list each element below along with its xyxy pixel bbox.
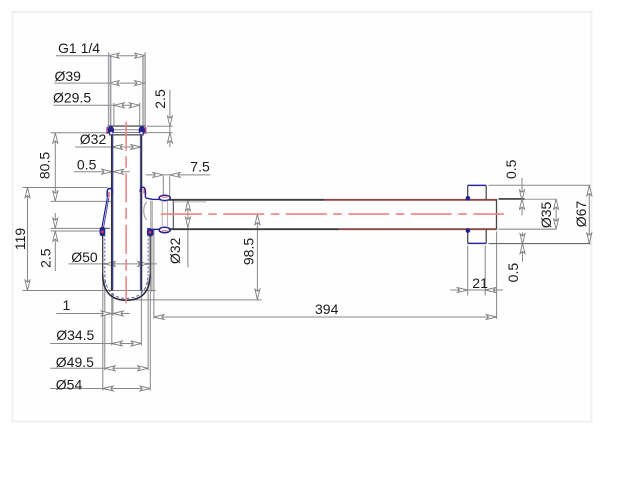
dimension 1 line: [56, 313, 130, 315]
extension line cup lip for 119: [23, 187, 108, 189]
dimension 2.5 left line: [54, 213, 56, 228]
nut body verticals: [161, 201, 163, 228]
dimension 0.5 left line: [74, 171, 130, 173]
extension vertical pipe end for 394: [496, 232, 498, 319]
pipe top edge maroon segment: [324, 199, 497, 201]
dimension 394 line: [154, 316, 497, 318]
dimension 21 line: [450, 289, 503, 291]
pipe top edge dark segment: [169, 199, 324, 201]
extension line cup bottom for 119: [23, 290, 156, 292]
pipe bottom edge dark segment: [169, 228, 339, 230]
svg-text:0.5: 0.5: [505, 263, 521, 283]
extension line cup seat for 80.5: [51, 200, 112, 202]
svg-text:80.5: 80.5: [37, 152, 53, 179]
arrows 1 crossed: [101, 311, 111, 316]
dimension O32 line: [75, 146, 141, 148]
dimension O34.5 line: [50, 343, 141, 345]
inlet tube outer walls (threaded section): [109, 52, 146, 126]
arrows 0.5 top-right crossed: [520, 190, 525, 200]
extension lines O29.5: [113, 103, 115, 126]
arrows 7.5 crossed: [153, 172, 163, 177]
extension lines cup ledge for 2.5: [51, 227, 100, 229]
arrows O50: [105, 261, 115, 266]
dimension 98.5 line: [256, 214, 258, 299]
svg-text:119: 119: [12, 228, 28, 251]
dimension O39 line: [54, 82, 145, 84]
svg-text:G1 1/4: G1 1/4: [58, 40, 100, 56]
down tube outer walls: [111, 135, 113, 291]
dimension 7.5 line: [146, 174, 210, 176]
flange magenta edges: [106, 127, 108, 134]
dimension G1 1/4 line: [56, 55, 145, 57]
svg-text:2.5: 2.5: [152, 89, 168, 109]
cup bottom outer curve: [103, 275, 151, 301]
arrows 80.5: [53, 133, 58, 143]
extension lines flange right for 2.5: [147, 125, 173, 127]
arrows 0.5 left crossed: [102, 169, 112, 174]
cup lip hook left: [107, 188, 112, 197]
arrows 394: [154, 315, 164, 320]
dimension 0.5 bottom-right line: [522, 233, 524, 262]
svg-text:7.5: 7.5: [190, 159, 210, 175]
olive ring bottom (navy ellipse): [159, 227, 170, 232]
cup lip hook right: [140, 187, 145, 197]
extension verticals below cup: [111, 293, 113, 346]
arrows O29.5: [114, 103, 124, 108]
collar O-ring bottom (navy dot): [466, 228, 471, 233]
flange seal left (navy): [108, 126, 115, 135]
cup shoulder left (double): [102, 198, 108, 228]
extension verticals nut face for 394: [151, 229, 153, 292]
arrows G1 1/4: [109, 53, 119, 58]
flange horizontal faces: [106, 126, 146, 135]
cup bottom inner curve (blue dashed): [105, 275, 148, 299]
dimension 2.5 top-right line: [169, 90, 171, 148]
arrows O35: [554, 199, 559, 209]
arrows 119: [25, 187, 30, 197]
dimension 0.5 top-right line: [521, 178, 523, 216]
olive ring top (navy ellipse): [159, 195, 170, 200]
branch stub bottom (navy): [147, 228, 168, 231]
dimension O54 line: [50, 388, 150, 390]
svg-text:Ø54: Ø54: [56, 376, 83, 392]
flange seal right (navy): [139, 126, 146, 135]
branch stub top (navy): [145, 198, 168, 200]
cup outer walls: [102, 235, 104, 277]
arrows O67: [587, 185, 592, 195]
dimension O67 line: [588, 185, 590, 243]
dimension O32 branch line: [187, 200, 189, 267]
svg-text:Ø39: Ø39: [55, 68, 82, 84]
cup inner walls (blue dotted): [104, 235, 106, 277]
svg-text:2.5: 2.5: [38, 248, 54, 268]
svg-text:21: 21: [472, 275, 488, 291]
svg-text:0.5: 0.5: [503, 159, 519, 179]
svg-text:Ø34.5: Ø34.5: [56, 327, 94, 343]
wall collar bottom half: [467, 229, 469, 243]
arrows O32: [112, 145, 122, 150]
nut curved face arc: [144, 202, 147, 220]
vertical centerline (red dash-dot): [125, 122, 127, 304]
svg-text:Ø49.5: Ø49.5: [56, 354, 94, 370]
dimension O29.5 line: [53, 104, 139, 106]
collar O-ring top (navy dot): [466, 196, 471, 201]
extension verticals collar for 21: [467, 246, 469, 296]
horizontal centerline (red dash-dot): [161, 213, 504, 215]
extension line pipe top for O35: [499, 198, 525, 200]
extension line collar top for O67: [489, 184, 591, 186]
arrows O39: [109, 81, 119, 86]
extension line pipe bottom for O35: [499, 228, 557, 230]
svg-text:0.5: 0.5: [77, 156, 97, 172]
extension line collar bottom for O67: [489, 243, 591, 245]
svg-text:Ø32: Ø32: [80, 131, 107, 147]
arrows 98.5: [255, 214, 260, 224]
wall collar top half: [467, 185, 469, 199]
dimension O35 line: [555, 199, 557, 229]
dimension 119 line: [27, 187, 29, 290]
cup nut knob right (navy): [147, 229, 154, 237]
pipe inner wall short line: [173, 201, 206, 203]
extension line flange left for 80.5: [51, 132, 107, 134]
svg-text:Ø35: Ø35: [538, 201, 554, 228]
svg-text:98.5: 98.5: [241, 238, 257, 265]
svg-text:Ø67: Ø67: [573, 201, 589, 228]
arrows 2.5 left crossed: [53, 218, 58, 228]
dimension 80.5 line: [54, 133, 56, 202]
extension line cup bottom for 98.5: [127, 299, 262, 301]
svg-text:Ø32: Ø32: [167, 237, 183, 264]
pipe right end face: [496, 199, 498, 230]
arrows O54: [103, 386, 113, 391]
arrows 0.5 bottom-right crossed: [520, 234, 525, 244]
arrows 21 crossed: [457, 288, 467, 293]
pipe left end face: [172, 200, 174, 229]
extension lines nut for 7.5: [162, 176, 164, 196]
pipe bottom edge maroon segment: [339, 228, 497, 230]
dimension O49.5 line: [50, 367, 148, 369]
arrows 2.5 top crossed: [167, 116, 172, 126]
cup nut knob left (navy): [100, 227, 106, 236]
arrows O34.5: [112, 341, 122, 346]
dimension O50 line: [68, 263, 157, 265]
svg-text:Ø29.5: Ø29.5: [53, 89, 91, 105]
arrows O32 branch: [185, 200, 190, 210]
down tube inner walls (blue): [112, 135, 114, 291]
cup ledge left: [99, 227, 109, 229]
svg-text:Ø50: Ø50: [71, 249, 98, 265]
border frame: [13, 12, 592, 422]
arrows O49.5: [105, 366, 115, 371]
nut face verticals: [150, 201, 152, 229]
svg-text:394: 394: [315, 301, 339, 317]
svg-text:1: 1: [63, 297, 71, 313]
